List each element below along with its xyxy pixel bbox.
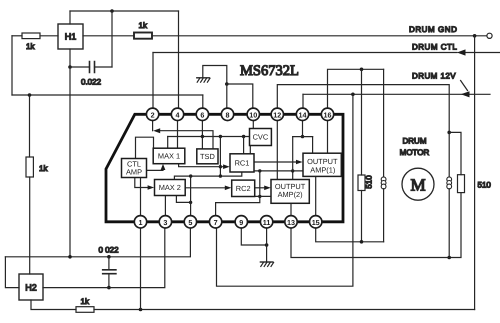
arrow DRUM 12V left-pointing	[461, 91, 470, 97]
wire MAX2 to RC2 with arrow	[185, 187, 227, 189]
block RC1	[230, 154, 254, 172]
arrow into pin2 riser	[153, 128, 160, 133]
inductor coil L2	[447, 177, 452, 189]
resistor R 510 (left vertical)	[358, 175, 365, 191]
svg-text:MS6732L: MS6732L	[240, 63, 299, 79]
wire pin1 internal to CTL AMP	[140, 178, 142, 216]
op-amp OUTPUT AMP(2)	[271, 180, 309, 204]
wire pin9 to pin11	[241, 228, 266, 245]
wire pin1 drop	[140, 228, 142, 310]
wire pin13 internal to AMP2	[290, 203, 292, 215]
wire pin14 right branch to AMP1 top	[312, 137, 314, 154]
node junction at (361.5,241.8)	[360, 240, 364, 244]
svg-text:H2: H2	[25, 283, 37, 293]
wire pin6 internal to TSD	[201, 121, 203, 149]
node junction at (259.8,170.9)	[258, 169, 261, 172]
pins top row 2..16	[146, 108, 333, 120]
svg-text:MAX 1: MAX 1	[158, 152, 180, 161]
wire pin10 internal to CVC	[252, 121, 254, 129]
wire H1 right to 1k	[83, 35, 134, 37]
block CVC	[250, 129, 272, 146]
wire H1 left	[40, 35, 58, 37]
wire bus drop x=220.4	[219, 137, 221, 177]
svg-text:1k: 1k	[139, 21, 148, 30]
wire RC1 lower line y=170.9 into AMP1	[254, 170, 303, 172]
svg-text:AMP: AMP	[126, 168, 142, 177]
wire CTL AMP to MAX1 with up arrow	[147, 169, 164, 170]
block MAX 1	[153, 148, 185, 164]
node junction at (220.4,166.7)	[219, 165, 222, 168]
pins bottom row 1..15	[134, 216, 322, 228]
node junction at (29.5,95)	[28, 93, 32, 97]
node junction at (243.6,136.5)	[242, 135, 245, 138]
resistor R 1k (top-left horizontal)	[22, 33, 40, 39]
wire pin15 internal to AMP1	[315, 177, 317, 215]
svg-text:H1: H1	[65, 32, 77, 42]
wire CTL AMP top link to MAX1 top-left	[136, 137, 154, 158]
svg-text:0.022: 0.022	[81, 78, 102, 87]
wire to cap1	[70, 66, 90, 68]
wire pin14 left branch to AMP2 top	[292, 137, 294, 180]
wire ground-a loop	[203, 66, 227, 85]
svg-text:13: 13	[287, 218, 295, 227]
wire pin12 line up and right y=84.6	[277, 85, 449, 133]
wire internal bus y=136.5 to CVC	[168, 136, 250, 138]
wire 12V left rail segment y=95 to pin6	[12, 94, 203, 96]
op-amp OUTPUT AMP(1)	[303, 153, 341, 176]
ground (top, near pins 8-10)	[197, 78, 210, 82]
wire MAX2 top line to RC1 bottom	[174, 172, 241, 180]
wire pin4 riser up to y=11	[178, 11, 180, 108]
wire 510 right lower	[449, 193, 461, 258]
wire down to 1k vertical resistor	[29, 95, 31, 157]
svg-text:AMP(2): AMP(2)	[278, 190, 303, 199]
block MAX 2	[155, 180, 186, 196]
wire coil2 rail lower	[448, 189, 450, 258]
svg-text:AMP(1): AMP(1)	[310, 165, 335, 174]
hall sensor H2	[19, 274, 43, 300]
wire feedback rail x=259.8	[216, 171, 260, 215]
arrow DRUM CTL left-pointing	[457, 49, 466, 55]
wire resistor to left rail	[12, 35, 22, 37]
hall sensor H1	[58, 24, 83, 49]
wire MAX2 bottom to pin3	[164, 196, 166, 216]
node junction at (361.5,69.3)	[360, 68, 364, 72]
wire rail x=361.5 upper	[361, 69, 363, 175]
resistor R 1k (top bold)	[134, 33, 152, 39]
wire RC2 to AMP2 with arrow	[255, 187, 267, 189]
node junction DRUM GND rail	[473, 34, 477, 38]
wire pin4 internal to MAX1	[177, 121, 179, 149]
wire pin2 internal with arrow line y=130.7	[152, 121, 154, 131]
node junction at (68.4,256.8)	[68, 255, 72, 259]
wire pin15 run to right	[316, 228, 384, 242]
node junction at (190.7,176.1)	[189, 174, 192, 177]
wire bottom ground return y=309.5	[94, 309, 475, 311]
svg-text:1k: 1k	[81, 297, 90, 306]
capacitor C 0.022 (top)	[90, 62, 95, 73]
svg-text:TSD: TSD	[200, 152, 215, 161]
node junction at (220.4,176.1)	[219, 174, 222, 177]
svg-text:6: 6	[200, 110, 204, 119]
svg-text:0 022: 0 022	[99, 246, 120, 255]
wire dot to pin8	[226, 84, 228, 108]
svg-text:14: 14	[299, 110, 307, 119]
wire net y=256.8 to pin5	[5, 228, 190, 257]
svg-text:15: 15	[312, 218, 320, 227]
wire H2 left loop	[5, 257, 19, 288]
wire 1k to H2 bottom	[31, 300, 76, 310]
wire pin11 down to ground	[266, 228, 268, 262]
node junction at (259.8,196.4)	[258, 195, 261, 198]
wire cap1 right	[95, 66, 113, 68]
svg-text:510: 510	[365, 175, 374, 189]
ground (below pin 11)	[260, 262, 273, 266]
svg-text:MOTOR: MOTOR	[400, 148, 430, 157]
svg-text:12: 12	[273, 110, 281, 119]
svg-text:DRUM GND: DRUM GND	[409, 25, 457, 34]
wire pin13 run to right	[291, 228, 449, 258]
node junction at (202.4,136.5)	[201, 135, 204, 138]
wire 1k vertical to H2 top	[29, 177, 31, 274]
svg-text:510: 510	[478, 181, 492, 190]
wire MAX1 to RC1 with arrow	[179, 164, 225, 167]
wire DRUM CTL line y=52.5	[153, 52, 457, 54]
node junction at (292.7,170.9)	[291, 169, 294, 172]
svg-text:RC1: RC1	[235, 159, 250, 168]
wire node up to MAX2 top line	[190, 176, 192, 202]
svg-text:3: 3	[163, 218, 167, 227]
wire MAX1 top riser to bus	[167, 137, 169, 149]
wire pin2 riser up to DRUM CTL	[152, 53, 154, 109]
wire rail x=361.5 lower	[361, 191, 363, 242]
node junction at (108.9,287.6)	[107, 286, 111, 290]
node junction at (266.6,245)	[265, 243, 269, 247]
node junction at (449.2,132.4)	[447, 131, 451, 135]
svg-text:1: 1	[139, 218, 143, 227]
svg-text:10: 10	[249, 110, 257, 119]
block TSD	[197, 149, 218, 164]
motor M circle	[402, 168, 434, 200]
svg-text:8: 8	[226, 110, 230, 119]
wire cap1 right riser x=112	[111, 11, 113, 67]
svg-text:4: 4	[176, 110, 180, 119]
wire pin12 internal to AMP2 top	[276, 121, 278, 180]
wire bus drop to RC1 top	[243, 137, 245, 154]
svg-text:9: 9	[239, 218, 243, 227]
wire H1 bottom riser	[69, 49, 71, 67]
wire CTL AMP to MAX2 with arrow	[135, 178, 150, 188]
terminal DRUM GND open circle	[487, 33, 492, 38]
wire rail x=383.6 upper	[383, 69, 385, 176]
svg-text:1k: 1k	[26, 42, 35, 51]
svg-text:M: M	[410, 176, 425, 195]
svg-text:RC2: RC2	[236, 184, 251, 193]
wire H1 top riser	[69, 11, 71, 24]
wire RC1 to AMP1 with arrow	[254, 161, 298, 163]
wire MAX2 bottom-left stub to pin5 node	[176, 196, 190, 203]
node junction at (70,67)	[68, 65, 72, 69]
node junction at (190.6,202.4)	[189, 201, 192, 204]
wire left rail x=12	[11, 36, 13, 95]
wire coil2 rail upper	[448, 132, 450, 176]
svg-text:MAX 2: MAX 2	[159, 183, 181, 192]
wire dot to pin10	[227, 84, 253, 108]
node junction at (352.9,94.3)	[351, 93, 355, 97]
wire 12V drop x=352.9 down to pin7 run	[217, 94, 353, 286]
svg-text:16: 16	[324, 110, 332, 119]
svg-text:1k: 1k	[39, 164, 48, 173]
node junction at (302.5,136.6)	[301, 135, 304, 138]
wire pin16 loop to motor rails	[328, 69, 384, 108]
wire node down to pin5	[190, 202, 192, 215]
wire pin16 internal to AMP1 top	[327, 121, 329, 155]
svg-text:DRUM CTL: DRUM CTL	[412, 43, 457, 52]
node junction at (112,11)	[110, 9, 114, 13]
resistor R 510 (right vertical)	[458, 175, 465, 193]
node junction at (449.2,257.5)	[447, 256, 451, 260]
wire top-left horizontal y=11 from H1 top to pin4 riser	[70, 10, 179, 12]
wire CVC bottom to RC1 top	[249, 146, 251, 154]
wire rail x=383.6 lower	[383, 189, 385, 242]
resistor R 1k (left vertical)	[26, 157, 33, 177]
svg-text:DRUM: DRUM	[403, 137, 427, 146]
capacitor C 0.022 (bottom)	[108, 257, 110, 270]
wire line y=196.4 into AMP2	[255, 195, 271, 197]
wire H2 right to pin3	[43, 228, 165, 288]
block RC2	[232, 180, 255, 196]
leader line from 12V label	[461, 81, 468, 91]
node junction at (220.4,136.5)	[219, 135, 222, 138]
resistor R 1k (bottom)	[76, 307, 94, 313]
wire DRUM GND line y=36	[152, 35, 487, 37]
node junction at (108.9,256.8)	[107, 255, 111, 259]
IC MS6732L body outline	[106, 114, 343, 222]
wire branch to 510 right resistor	[449, 132, 461, 174]
wire DRUM 12V line y=94.3	[303, 93, 490, 95]
svg-text:2: 2	[151, 110, 155, 119]
wire pin14 internal	[302, 121, 304, 137]
node junction at (140.5,309.5)	[139, 308, 143, 312]
svg-text:5: 5	[188, 218, 192, 227]
inductor coil L1	[381, 177, 386, 189]
wire pin14 top riser	[302, 94, 304, 108]
svg-text:11: 11	[263, 218, 271, 227]
wire right rail x=474.6 (DRUM GND)	[474, 36, 476, 310]
op-amp CTL AMP	[122, 159, 147, 178]
node junction at (226.8,84)	[225, 82, 229, 86]
wire pin14 tee	[293, 136, 313, 138]
svg-text:CVC: CVC	[253, 133, 269, 142]
svg-text:7: 7	[214, 218, 218, 227]
svg-text:DRUM 12V: DRUM 12V	[412, 72, 456, 81]
wire H1 node down to bottom net	[69, 67, 71, 257]
